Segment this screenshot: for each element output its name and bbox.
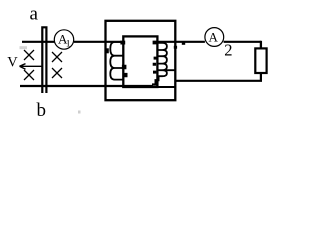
- bottom wire (left section to transformer): [20, 85, 153, 87]
- load resistor: [255, 48, 266, 73]
- secondary winding loops: [157, 43, 174, 76]
- load lead down: [260, 41, 262, 49]
- svg-text:b: b: [37, 100, 47, 121]
- svg-text:V: V: [7, 55, 18, 71]
- top wire (left section): [22, 41, 55, 43]
- primary winding loops: [110, 42, 123, 80]
- faint scan smudge: [20, 46, 28, 49]
- junction nub on box right edge: [174, 46, 177, 49]
- winding turn X2: [24, 70, 34, 80]
- wire A1 to transformer primary: [74, 41, 121, 43]
- winding turn X3: [52, 52, 62, 62]
- transformer enclosure box: [106, 21, 176, 100]
- secondary bottom staircase connector: [152, 76, 158, 85]
- wire A2 to load: [224, 41, 261, 43]
- autotransformer core a-b: [42, 27, 46, 93]
- winding turn X4: [52, 68, 62, 78]
- junction speck on wire: [182, 42, 185, 45]
- secondary exit wire (inside box, bottom): [157, 86, 175, 88]
- top wire transformer to A2: [157, 41, 205, 43]
- ammeter A1: [54, 30, 73, 50]
- wiper arrow: [20, 64, 42, 70]
- svg-text:1: 1: [66, 40, 71, 50]
- primary winding junction marks: [120, 41, 127, 78]
- faint speck: [78, 111, 81, 114]
- svg-text:A: A: [209, 30, 219, 45]
- secondary winding junction marks: [153, 41, 157, 74]
- ammeter A2: [205, 28, 233, 60]
- winding turn X1: [24, 50, 34, 60]
- transformer core: [123, 36, 157, 87]
- load bottom lead and return wire: [176, 73, 261, 81]
- junction nub on box left edge: [106, 48, 109, 53]
- svg-text:a: a: [30, 4, 39, 25]
- svg-text:2: 2: [224, 41, 232, 60]
